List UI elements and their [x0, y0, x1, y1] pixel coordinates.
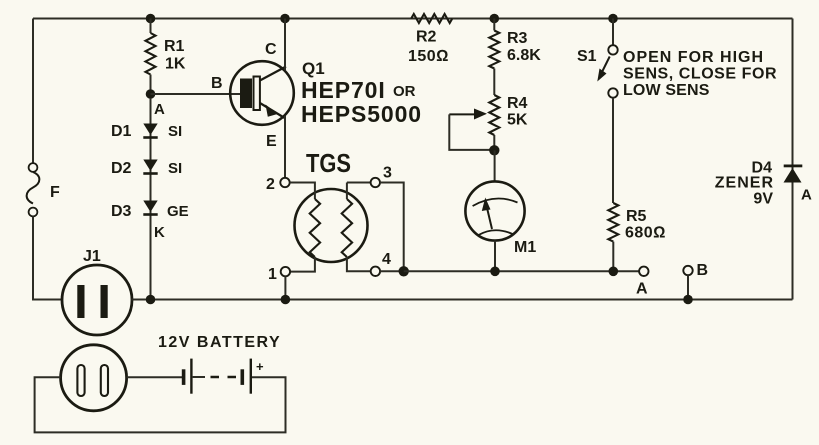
- wire terminal B to mid bus: [687, 275, 689, 299]
- svg-text:3: 3: [383, 165, 392, 182]
- svg-text:OPEN FOR HIGH: OPEN FOR HIGH: [623, 49, 764, 66]
- svg-text:1: 1: [268, 266, 277, 283]
- wire mid bus: [132, 299, 793, 301]
- wire pin3 around to junction: [380, 183, 404, 272]
- junction diode chain to mid bus: [146, 295, 156, 305]
- svg-text:150Ω: 150Ω: [408, 48, 449, 65]
- wire node A line: [404, 270, 639, 272]
- svg-text:2: 2: [266, 176, 275, 193]
- svg-text:12V BATTERY: 12V BATTERY: [158, 334, 281, 351]
- svg-text:A: A: [801, 187, 812, 204]
- svg-text:B: B: [211, 75, 223, 92]
- resistor R1: [146, 19, 186, 95]
- wire right element to pin3: [347, 182, 371, 184]
- wire R4 wiper loop: [449, 114, 494, 149]
- svg-text:D2: D2: [111, 160, 132, 177]
- svg-text:R5: R5: [626, 208, 647, 225]
- wire plug to battery: [127, 376, 182, 378]
- svg-text:E: E: [266, 133, 277, 150]
- svg-text:HEPS5000: HEPS5000: [301, 101, 422, 127]
- connector J1: [62, 248, 132, 335]
- junction R5 bottom: [609, 267, 619, 277]
- svg-text:TGS: TGS: [306, 148, 351, 178]
- wire emitter: [284, 116, 286, 178]
- svg-text:+: +: [256, 359, 264, 374]
- wire base: [151, 93, 241, 95]
- wire left element to pin1: [290, 257, 315, 272]
- wire S1 to R5: [612, 98, 614, 203]
- junction B mid bus: [683, 295, 693, 305]
- wire pin1 to mid bus: [284, 276, 286, 299]
- wire collector: [284, 19, 286, 71]
- junction collector top: [280, 14, 290, 24]
- label Q1 part numbers: [301, 77, 422, 127]
- wire pin2 to left element: [290, 183, 315, 200]
- svg-text:ZENER: ZENER: [715, 175, 774, 192]
- junction R4 bottom: [489, 145, 499, 155]
- svg-text:B: B: [697, 262, 709, 279]
- junction node A (base): [146, 89, 165, 118]
- junction R1 top: [146, 14, 156, 24]
- connector plug to battery: [61, 345, 127, 411]
- svg-text:C: C: [265, 41, 277, 58]
- svg-text:SI: SI: [168, 123, 182, 140]
- svg-text:R3: R3: [507, 30, 528, 47]
- meter M1: [465, 181, 536, 256]
- svg-text:GE: GE: [167, 203, 189, 220]
- TGS sensor body: [295, 148, 368, 262]
- wire diode chain: [150, 98, 152, 300]
- svg-text:S1: S1: [577, 48, 597, 65]
- svg-text:R1: R1: [164, 38, 185, 55]
- resistor R2: [408, 14, 452, 65]
- svg-text:SI: SI: [168, 160, 182, 177]
- junction R3 top: [490, 14, 500, 24]
- svg-text:HEP70I: HEP70I: [301, 77, 386, 103]
- wire right element to pin4: [347, 257, 371, 271]
- svg-text:A: A: [636, 281, 648, 298]
- svg-text:6.8K: 6.8K: [507, 47, 541, 64]
- svg-text:OR: OR: [393, 83, 416, 100]
- TGS pin 2 terminal: [266, 176, 290, 193]
- TGS pin 3 terminal: [371, 165, 392, 188]
- svg-text:R2: R2: [416, 29, 437, 46]
- diode D2: [111, 160, 182, 178]
- potentiometer R4: [449, 95, 528, 150]
- svg-text:LOW SENS: LOW SENS: [623, 82, 710, 99]
- junction S1 top: [608, 14, 618, 24]
- transistor Q1: [211, 41, 325, 150]
- svg-text:J1: J1: [83, 248, 101, 265]
- TGS pin 1 terminal: [268, 266, 290, 283]
- svg-text:M1: M1: [514, 239, 536, 256]
- wire left rail upper: [32, 19, 34, 164]
- terminal B: [683, 262, 708, 279]
- wire left rail lower: [33, 217, 63, 300]
- junction TGS output: [399, 266, 409, 276]
- diode D3: [111, 201, 189, 242]
- TGS left element: [310, 199, 320, 257]
- battery 12V: [158, 334, 281, 394]
- wire right rail: [792, 19, 794, 300]
- svg-text:F: F: [50, 184, 60, 201]
- wire meter top: [494, 150, 496, 181]
- TGS right element: [342, 199, 352, 257]
- svg-text:K: K: [154, 224, 165, 241]
- label S1 note: [623, 49, 777, 99]
- wire top bus: [33, 18, 793, 20]
- fuse F: [27, 163, 60, 216]
- switch S1: [577, 19, 618, 98]
- svg-text:D1: D1: [111, 123, 132, 140]
- resistor R3: [489, 19, 541, 96]
- junction meter bottom: [490, 267, 500, 277]
- svg-text:Q1: Q1: [302, 59, 325, 78]
- svg-text:A: A: [154, 101, 165, 118]
- wire battery loop: [35, 377, 286, 432]
- svg-text:9V: 9V: [753, 191, 773, 208]
- svg-text:R4: R4: [507, 95, 528, 112]
- diode D1: [111, 123, 182, 140]
- svg-text:SENS, CLOSE FOR: SENS, CLOSE FOR: [623, 66, 777, 83]
- wire pin4 to junction: [380, 270, 404, 272]
- resistor R5: [608, 203, 666, 271]
- svg-text:5K: 5K: [507, 112, 528, 129]
- svg-text:1K: 1K: [165, 56, 186, 73]
- svg-text:4: 4: [382, 251, 391, 268]
- zener diode D4: [715, 160, 812, 208]
- wire meter bottom: [494, 241, 496, 272]
- TGS pin 4 terminal: [371, 251, 391, 276]
- svg-text:680Ω: 680Ω: [625, 225, 666, 242]
- wire right element top: [346, 183, 348, 200]
- junction pin1 mid bus: [281, 295, 291, 305]
- terminal A: [636, 267, 649, 298]
- svg-text:D3: D3: [111, 203, 132, 220]
